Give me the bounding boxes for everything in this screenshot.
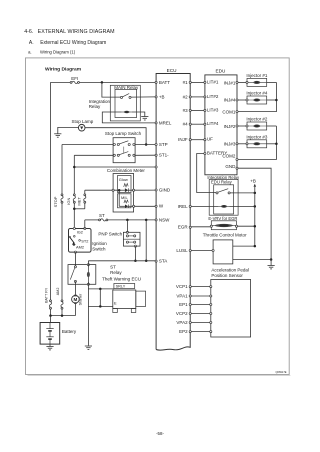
wires ECU to EDU (#1-#4, INJF) xyxy=(191,81,204,83)
ECU pin ST1- (left, y=155.2) xyxy=(155,154,157,156)
MAIN relay xyxy=(115,89,137,117)
ECU pin #2 (right, y=96.9) xyxy=(189,96,191,98)
svg-text:SRLY: SRLY xyxy=(116,285,126,289)
throttle control motor M1 xyxy=(213,240,233,264)
junction +B / E-VRV xyxy=(254,225,256,228)
wire pedal sensor y=286.6 xyxy=(191,286,210,288)
PNP bottom terminal xyxy=(134,245,136,247)
ECU pin VCP1 (right, y=286.6) xyxy=(189,286,191,288)
junction stop lamp / STP xyxy=(145,143,148,146)
junction NSW / bypass xyxy=(145,219,148,222)
wire NSW bypass to STA xyxy=(145,220,147,261)
svg-text:Theft Warning ECU: Theft Warning ECU xyxy=(102,276,141,281)
acceleration pedal position sensor xyxy=(211,280,251,338)
ST relay contact xyxy=(74,266,76,268)
svg-text:UF: UF xyxy=(207,137,213,142)
svg-text:Glow: Glow xyxy=(119,177,128,182)
ground battery xyxy=(46,347,53,350)
svg-text:INJ#1: INJ#1 xyxy=(224,80,236,85)
svg-text:EP2: EP2 xyxy=(179,329,188,334)
ECU pin IREL (right, y=206.4) xyxy=(189,205,191,207)
ECU pin #3 (right, y=110.4) xyxy=(189,109,191,111)
wire EDU to injector #3 xyxy=(238,143,246,145)
ECU pin unlabeled (left, y=167.0) xyxy=(155,166,157,168)
svg-text:A.: A. xyxy=(29,40,34,46)
svg-text:ST2: ST2 xyxy=(81,238,88,243)
combination meter box xyxy=(113,174,134,213)
ECU pin BATT (left, y=82.4) xyxy=(155,81,157,83)
svg-text:COM2: COM2 xyxy=(222,154,235,159)
EDU relay coil xyxy=(218,205,229,207)
rail MET (x=84.8) xyxy=(84,190,86,194)
PNP contacts row2 xyxy=(126,241,128,243)
svg-text:STA: STA xyxy=(159,259,167,264)
svg-text:External ECU Wiring Diagram: External ECU Wiring Diagram xyxy=(40,40,106,46)
EDU pin UF (left) xyxy=(204,139,206,141)
svg-text:Battery: Battery xyxy=(62,329,77,334)
ECU pin VCP2 (right, y=313.5) xyxy=(189,312,191,314)
svg-text:INJ#2: INJ#2 xyxy=(224,124,236,129)
wire EDU to injector #1 xyxy=(238,81,246,83)
EDU pin INJ#1 (right) xyxy=(236,81,238,83)
svg-text:EFI: EFI xyxy=(71,76,78,81)
EDU pin LIT#4 (left) xyxy=(204,123,206,125)
ECU pin VPA1 (right, y=296.0) xyxy=(189,295,191,297)
svg-text:#2: #2 xyxy=(183,94,189,99)
ground EDU xyxy=(270,260,272,266)
wire +B rail xyxy=(254,187,256,246)
EDU pin INJ#4 (right) xyxy=(236,99,238,101)
ECU pin #4 (right, y=124.2) xyxy=(189,123,191,125)
ECU pin W (left, y=206.3) xyxy=(155,205,157,207)
junction GND / throttle motor xyxy=(270,258,273,261)
PNP switch SW2 xyxy=(123,232,140,246)
wire pedal sensor y=313.5 xyxy=(191,313,210,315)
svg-text:INJF: INJF xyxy=(178,137,188,142)
svg-text:Position Sensor: Position Sensor xyxy=(211,273,243,278)
MIL indicator box xyxy=(118,194,132,208)
svg-text:COM1: COM1 xyxy=(222,109,235,114)
junction STA / PNP xyxy=(134,260,137,263)
svg-text:MREL: MREL xyxy=(159,120,172,125)
svg-text:ST: ST xyxy=(110,264,116,269)
wire STA line to ST relay coil xyxy=(87,261,89,267)
wire throttle motor to ground node xyxy=(233,259,271,261)
wire pedal sensor y=322.5 xyxy=(191,322,210,324)
svg-text:Relay: Relay xyxy=(89,104,101,109)
junction +B / coil xyxy=(254,205,256,208)
wire coil to SRLY xyxy=(88,288,114,290)
wire switch row2 to ECU ST1- xyxy=(135,154,155,156)
injector #2 xyxy=(247,122,267,130)
svg-text:BATT P/I: BATT P/I xyxy=(45,288,49,303)
ignition switch SW3 xyxy=(69,229,92,253)
switch gang link xyxy=(123,147,125,153)
wire IGN rail to switch row2 xyxy=(74,154,113,156)
ECU pin MREL (left, y=122.9) xyxy=(155,122,157,124)
svg-text:E: E xyxy=(114,301,117,306)
wire MAIN relay coil to ground xyxy=(132,112,145,116)
PNP contacts row1 xyxy=(126,235,128,237)
EDU pin LIT#2 (left) xyxy=(204,96,206,98)
wire injector #3 to common xyxy=(267,143,277,145)
svg-text:VPA1: VPA1 xyxy=(176,293,188,298)
wire ignition AM2 to ST relay xyxy=(74,252,76,267)
svg-text:VPA2: VPA2 xyxy=(176,320,188,325)
svg-text:Relay: Relay xyxy=(110,270,122,275)
junction E node xyxy=(99,305,102,308)
wire E terminal xyxy=(88,305,112,307)
svg-text:#3: #3 xyxy=(183,108,189,113)
wire STOP fuse to switch row1 xyxy=(62,144,113,146)
wire PNP to STA line xyxy=(134,246,136,261)
wire STA line xyxy=(88,260,155,262)
MAIN relay coil xyxy=(122,111,132,113)
wire MAIN relay contact to ECU +B xyxy=(131,96,155,98)
junction NSW / PNP switch xyxy=(126,219,128,222)
svg-text:#1: #1 xyxy=(183,80,189,85)
ECU pin GIND (left, y=190.0) xyxy=(155,189,157,191)
theft warning ECU box xyxy=(113,290,136,309)
svg-text:Stop Lamp Switch: Stop Lamp Switch xyxy=(105,131,142,136)
wire IGN to ECU terminal xyxy=(74,166,155,168)
ECU pin EP1 (right, y=304.5) xyxy=(189,303,191,305)
svg-text:MET: MET xyxy=(76,197,81,206)
svg-text:BATT: BATT xyxy=(159,80,170,85)
wire EDU GND to ground xyxy=(238,168,271,259)
wire relay contact to +B xyxy=(230,192,255,194)
svg-text:AM2: AM2 xyxy=(56,288,60,296)
junction SRLY node xyxy=(99,288,102,291)
ECU pin LUSL (right, y=250.5) xyxy=(189,249,191,251)
wire E-VRV to +B xyxy=(238,225,255,227)
wire EDU BATTERY to relay contact xyxy=(197,154,216,193)
glow diode xyxy=(119,189,125,191)
MIL lamp filament xyxy=(124,200,128,203)
ECU pin STA (left, y=261.1) xyxy=(155,260,157,262)
battery BT1 xyxy=(40,323,60,345)
svg-text:LIT#1: LIT#1 xyxy=(207,79,219,84)
ECU pin NSW (left, y=219.9) xyxy=(155,219,157,221)
wire injector #4 to common xyxy=(267,99,277,101)
switch row1 contacts xyxy=(113,143,115,145)
svg-text:VCP2: VCP2 xyxy=(176,311,188,316)
EDU relay contact xyxy=(218,189,228,193)
wire MIL to ECU W xyxy=(134,205,156,207)
wire glow to ECU GIND xyxy=(134,189,156,191)
svg-text:ECU: ECU xyxy=(167,68,178,73)
svg-text:LIT#4: LIT#4 xyxy=(207,121,219,126)
wire pedal sensor y=331.6 xyxy=(191,331,210,333)
wire COM2 common loop xyxy=(238,126,276,160)
integration relay box (left) xyxy=(110,85,140,121)
wire MAIN relay coil to ECU MREL xyxy=(102,112,155,123)
junction IGN / ST branch xyxy=(73,208,76,211)
glow lamp filament xyxy=(124,184,129,187)
svg-text:Switch: Switch xyxy=(92,247,106,252)
junction injector #3 / COM2 xyxy=(275,143,278,146)
svg-text:E-VRV for EGR: E-VRV for EGR xyxy=(208,216,237,221)
wire pedal sensor y=304.5 xyxy=(191,304,210,306)
wire ST relay contact to starter xyxy=(74,281,76,295)
junction BATT wire / main relay branch xyxy=(101,81,104,84)
junction bus / AM2 rail xyxy=(61,314,64,317)
svg-text:MAIN Relay: MAIN Relay xyxy=(114,85,139,90)
junction bus / battery xyxy=(49,314,52,317)
wire COM1 common loop xyxy=(238,82,276,111)
wire MET rail to combination meter xyxy=(85,189,119,191)
ST relay xyxy=(68,265,96,285)
ECU pin STP (left, y=144.5) xyxy=(155,143,157,145)
svg-text:EGR: EGR xyxy=(178,225,189,230)
EDU relay xyxy=(214,185,234,214)
ECU pin EGR (right, y=227.3) xyxy=(189,226,191,228)
svg-text:#4: #4 xyxy=(183,122,189,127)
svg-text:PNP Switch: PNP Switch xyxy=(98,232,122,237)
svg-text:Stop Lamp: Stop Lamp xyxy=(72,119,94,124)
E-VRV solenoid V1 xyxy=(211,221,236,230)
ground theft warning ECU xyxy=(85,346,92,349)
integration relay box (right) xyxy=(209,180,238,216)
junction injector #4 / COM1 xyxy=(275,99,278,102)
svg-text:MIL: MIL xyxy=(121,195,128,200)
ST relay coil xyxy=(87,265,89,285)
wire ST relay coil to theft ECU xyxy=(87,282,89,346)
svg-text:Injector #2: Injector #2 xyxy=(246,117,268,122)
svg-text:STP: STP xyxy=(159,142,168,147)
rail IGN (x=74.3) xyxy=(73,155,75,194)
junction +B / contact xyxy=(254,192,256,195)
injector #4 xyxy=(247,96,267,104)
ground MAIN relay xyxy=(141,117,148,120)
svg-text:LIT#3: LIT#3 xyxy=(207,107,219,112)
wire IGN to MET rail xyxy=(74,208,85,210)
svg-text:+B: +B xyxy=(250,178,256,183)
EDU pin INJ#2 (right) xyxy=(236,125,238,127)
wire starter to battery bus xyxy=(74,303,76,315)
wire injector #2 to common xyxy=(267,125,277,127)
wire EDU to injector #4 xyxy=(238,99,246,101)
starter M2 xyxy=(72,296,80,304)
wire ST2 to ST fuse line xyxy=(84,220,86,229)
ground stop lamp xyxy=(54,134,61,137)
wire EDU to injector #2 xyxy=(238,125,246,127)
stop lamp L1 xyxy=(78,124,85,131)
MIL diode xyxy=(119,205,125,207)
wire switch row1 to ECU STP xyxy=(135,144,155,146)
EDU pin LIT#1 (left) xyxy=(204,81,206,83)
wire ECU EGR to E-VRV xyxy=(191,226,210,228)
wire pedal sensor y=296.0 xyxy=(191,295,210,297)
svg-text:Wiring Diagram: Wiring Diagram xyxy=(45,67,82,73)
rail STOP/AM2 (x=62) xyxy=(61,145,63,194)
wire to main relay contact xyxy=(102,82,121,97)
svg-text:Starter: Starter xyxy=(78,293,83,305)
svg-text:Acceleration Pedal: Acceleration Pedal xyxy=(211,268,249,273)
svg-text:Injector #4: Injector #4 xyxy=(246,91,268,96)
svg-text:IREL: IREL xyxy=(178,204,189,209)
ECU pin VPA2 (right, y=322.5) xyxy=(189,321,191,323)
EDU pin LIT#3 (left) xyxy=(204,109,206,111)
svg-text:EP1: EP1 xyxy=(179,302,188,307)
main battery rail (left) xyxy=(50,82,52,300)
svg-text:INJ#4: INJ#4 xyxy=(224,98,236,103)
wire battery to ground xyxy=(49,344,51,346)
EDU pin GND (right) xyxy=(236,167,238,169)
battery bus xyxy=(51,315,76,317)
svg-text:Injector #1: Injector #1 xyxy=(246,73,268,78)
wire SRLY to E link xyxy=(99,289,101,307)
wire injector #1 to common xyxy=(267,81,277,83)
Glow indicator box xyxy=(118,176,132,193)
SRLY box xyxy=(114,284,135,289)
ECU pin EP2 (right, y=331.6) xyxy=(189,331,191,333)
injector #1 xyxy=(247,78,267,86)
wire ECU IREL to relay coil xyxy=(191,205,218,207)
wire stop lamp to ground xyxy=(58,127,79,133)
junction STA / bypass xyxy=(145,260,148,263)
svg-text:IGN: IGN xyxy=(66,198,71,205)
svg-text:AM2: AM2 xyxy=(76,245,84,250)
svg-text:EXTERNAL WIRING DIAGRAM: EXTERNAL WIRING DIAGRAM xyxy=(38,29,115,35)
EDU pin INJ#3 (right) xyxy=(236,143,238,145)
wire ST fuse line to ECU NSW xyxy=(85,219,99,221)
wire NSW node to PNP switch xyxy=(126,220,128,232)
svg-text:Ignition: Ignition xyxy=(92,241,107,246)
ignition switch lever xyxy=(70,237,74,243)
EDU pin COM2 (right) xyxy=(236,158,238,160)
svg-text:NSW: NSW xyxy=(159,217,170,222)
svg-text:Combination Meter: Combination Meter xyxy=(107,168,146,173)
EDU U2 (injector driver unit) xyxy=(205,75,237,175)
meter internal feed rail xyxy=(118,190,120,206)
svg-text:LUSL: LUSL xyxy=(176,248,188,253)
svg-text:Throttle Control Motor: Throttle Control Motor xyxy=(203,232,247,237)
svg-text:GND: GND xyxy=(225,164,236,169)
svg-text:Wiring Diagram (1): Wiring Diagram (1) xyxy=(40,49,76,54)
svg-text:EDU: EDU xyxy=(215,68,226,73)
svg-text:Injector #3: Injector #3 xyxy=(246,135,268,140)
svg-text:INJ#3: INJ#3 xyxy=(224,141,236,146)
svg-text:+B: +B xyxy=(159,94,165,99)
ECU pin INJF (right, y=139.7) xyxy=(189,139,191,141)
svg-text:GIND: GIND xyxy=(159,187,171,192)
EDU pin BATTERY (left) xyxy=(204,152,206,154)
svg-text:EDU Relay: EDU Relay xyxy=(211,180,233,185)
EDU pin COM1 (right) xyxy=(236,111,238,113)
wire relay coil to +B xyxy=(230,205,255,207)
ECU U1 (engine control unit) xyxy=(156,74,190,351)
MAIN relay contact xyxy=(120,96,122,98)
wire throttle motor to +B xyxy=(233,245,255,247)
svg-text:a.: a. xyxy=(28,49,32,54)
svg-text:-58-: -58- xyxy=(156,431,164,436)
svg-text:VCP1: VCP1 xyxy=(176,284,188,289)
svg-text:ST: ST xyxy=(99,213,105,218)
junction IGN / ECU feed xyxy=(73,166,76,169)
wire stop lamp to STP node xyxy=(85,128,146,145)
wire battery feed to ECU BATT (EFI fuse line) xyxy=(51,81,71,83)
svg-text:IG2: IG2 xyxy=(77,230,83,235)
injector #3 xyxy=(247,140,267,148)
junction +B / motor xyxy=(254,245,256,248)
ECU pin #1 (right, y=82.4) xyxy=(189,81,191,83)
wire ECU LUSL to throttle motor xyxy=(191,250,212,252)
svg-text:Q06917E: Q06917E xyxy=(276,370,287,374)
svg-text:W: W xyxy=(159,204,164,209)
svg-text:LIT#2: LIT#2 xyxy=(207,94,219,99)
PNP switch divider xyxy=(123,238,140,240)
ECU pin +B (left, y=96.9) xyxy=(155,96,157,98)
switch row2 contacts xyxy=(113,154,115,156)
svg-text:STOP: STOP xyxy=(53,196,58,207)
stop lamp switch SW1 xyxy=(113,138,135,163)
svg-text:4-6.: 4-6. xyxy=(24,29,33,35)
svg-text:ST1-: ST1- xyxy=(159,153,169,158)
